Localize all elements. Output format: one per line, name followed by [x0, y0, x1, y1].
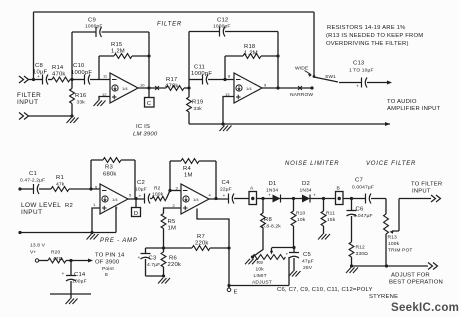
- node D1/D2 junction: [292, 197, 295, 200]
- svg-text:D2: D2: [302, 181, 310, 187]
- svg-text:C11: C11: [194, 65, 205, 71]
- svg-text:220k: 220k: [168, 262, 182, 268]
- svg-text:47k: 47k: [56, 182, 65, 188]
- wire adjust line: [352, 265, 429, 267]
- svg-text:IC IS: IC IS: [136, 124, 150, 130]
- svg-text:PRE - AMP: PRE - AMP: [100, 238, 138, 244]
- svg-text:V+: V+: [30, 250, 36, 256]
- op-amp U2a 1/4 LM3900: [234, 73, 262, 103]
- svg-text:R19: R19: [192, 100, 203, 106]
- svg-text:OF 3900: OF 3900: [95, 260, 120, 266]
- svg-text:1/4: 1/4: [112, 197, 118, 202]
- op-amp U1a 1/4 LM3900: [110, 73, 138, 103]
- svg-text:22µF: 22µF: [220, 187, 232, 193]
- wire return line to audio amp: [189, 123, 390, 125]
- wire R1 to U3 minus: [69, 188, 100, 190]
- svg-text:+: +: [139, 195, 142, 200]
- svg-text:680k: 680k: [103, 172, 117, 178]
- node output junction: [276, 86, 279, 89]
- node R15/C9 junction: [147, 54, 150, 57]
- node R11 tap junction: [322, 197, 325, 200]
- svg-text:LOW LEVEL: LOW LEVEL: [21, 202, 61, 209]
- svg-text:5: 5: [129, 193, 132, 198]
- svg-text:D1: D1: [269, 181, 277, 187]
- wire U2a plus input to return line: [223, 97, 234, 125]
- filter input terminal arrows: [19, 76, 29, 83]
- svg-text:1000pF: 1000pF: [213, 24, 231, 30]
- svg-text:1M: 1M: [168, 226, 177, 232]
- ground: [158, 278, 170, 284]
- node R12/R13 bottom junction: [350, 264, 353, 267]
- svg-text:C1: C1: [29, 171, 37, 177]
- wiper R9: [271, 248, 273, 251]
- svg-text:+: +: [286, 253, 289, 258]
- node B box: [336, 192, 344, 205]
- svg-text:RESISTORS 14-19 ARE 1%: RESISTORS 14-19 ARE 1%: [327, 25, 406, 31]
- svg-text:4: 4: [209, 193, 212, 198]
- svg-text:(R13 IS NEEDED TO KEEP FROM: (R13 IS NEEDED TO KEEP FROM: [326, 33, 423, 39]
- svg-text:SeekIC.com: SeekIC.com: [391, 302, 459, 314]
- svg-text:R3: R3: [105, 165, 113, 171]
- svg-text:1/4: 1/4: [246, 86, 252, 91]
- svg-text:R14: R14: [52, 65, 64, 71]
- svg-text:R20: R20: [51, 250, 61, 256]
- svg-text:C6: C6: [356, 207, 364, 213]
- ground: [245, 259, 257, 265]
- node E rail junction: [227, 284, 230, 287]
- svg-text:C5: C5: [303, 252, 311, 258]
- svg-text:INPUT: INPUT: [412, 189, 431, 195]
- second input terminal arrows: [19, 113, 29, 120]
- node C3/R6 bottom junction: [162, 274, 165, 277]
- svg-text:LIMIT: LIMIT: [254, 273, 267, 279]
- node U4 output junction: [214, 197, 217, 200]
- svg-text:+: +: [223, 194, 226, 199]
- wire U4 plus input to R5: [164, 208, 182, 214]
- svg-text:10k: 10k: [297, 217, 306, 223]
- wire SW1 pole to C13: [339, 82, 362, 84]
- svg-text:R11: R11: [326, 211, 335, 217]
- op-amp U3 1/4 LM3900 pre-amp: [100, 184, 128, 214]
- svg-text:1000pF: 1000pF: [85, 24, 103, 30]
- svg-text:1M: 1M: [184, 173, 193, 179]
- node R7 right junction: [227, 246, 230, 249]
- svg-text:NARROW: NARROW: [290, 92, 313, 98]
- svg-text:R15: R15: [111, 42, 123, 48]
- svg-text:C9: C9: [88, 18, 96, 24]
- svg-text:C12: C12: [217, 18, 228, 24]
- node D box label: [135, 199, 137, 208]
- svg-text:1 TO 10µF: 1 TO 10µF: [349, 68, 374, 74]
- svg-text:33k: 33k: [77, 100, 86, 106]
- svg-text:+: +: [313, 194, 316, 199]
- wire slope stub to R7 line: [197, 209, 229, 249]
- wire C13 to audio output arrow: [367, 82, 390, 84]
- node low level input terminal: [18, 187, 21, 190]
- svg-text:C4: C4: [222, 180, 230, 186]
- wire C10 to op-amp U1a minus input: [90, 79, 110, 81]
- node R3 tap junction: [89, 187, 92, 190]
- node C6 tap junction: [350, 197, 353, 200]
- svg-text:0.0047µF: 0.0047µF: [352, 185, 374, 191]
- wire U1a plus input to ground: [99, 97, 110, 101]
- svg-text:OVERDRIVING THE FILTER): OVERDRIVING THE FILTER): [326, 41, 409, 47]
- wire input to C1: [20, 188, 34, 190]
- ground: [289, 271, 301, 277]
- svg-text:100k: 100k: [388, 241, 400, 247]
- svg-text:R16: R16: [75, 93, 87, 99]
- wire R14 to C10: [70, 79, 85, 81]
- wire to U4 minus: [170, 190, 181, 192]
- svg-text:330Ω: 330Ω: [356, 251, 369, 257]
- node U4 minus junction: [168, 189, 171, 192]
- svg-text:R5: R5: [168, 219, 176, 225]
- svg-text:TO FILTER: TO FILTER: [411, 182, 442, 188]
- node A box: [249, 192, 257, 205]
- wire C8 to R14: [48, 79, 52, 81]
- svg-text:E: E: [105, 272, 109, 278]
- svg-text:33k: 33k: [194, 106, 203, 112]
- svg-text:R6: R6: [169, 256, 177, 262]
- svg-text:R9: R9: [257, 260, 264, 266]
- wire lower input to ground node: [29, 115, 73, 117]
- svg-text:+: +: [62, 272, 65, 277]
- svg-text:2: 2: [173, 203, 176, 208]
- svg-text:10: 10: [140, 83, 145, 88]
- wire R9 right end to E rail: [229, 257, 289, 286]
- svg-text:1/4: 1/4: [122, 86, 128, 91]
- ground: [67, 118, 79, 124]
- node B2 junction: [187, 86, 190, 89]
- ground: [94, 101, 106, 107]
- node C14 tap junction: [69, 259, 72, 262]
- svg-text:E: E: [234, 290, 238, 296]
- svg-text:+: +: [138, 256, 141, 261]
- wire U3 output: [128, 198, 145, 200]
- wire point E drop: [228, 248, 230, 288]
- svg-text:+: +: [356, 85, 359, 90]
- svg-text:B: B: [337, 186, 340, 192]
- node wiper/R10/C5 junction: [292, 246, 295, 249]
- svg-text:TRIM POT: TRIM POT: [388, 248, 413, 254]
- wire: filter input to C8: [29, 79, 43, 81]
- svg-text:47µF: 47µF: [302, 259, 314, 265]
- svg-text:25V: 25V: [303, 265, 313, 271]
- svg-text:1000pF: 1000pF: [191, 71, 212, 77]
- svg-text:C6, C7, C9, C10, C11, C12=POLY: C6, C7, C9, C10, C11, C12=POLY: [277, 287, 373, 293]
- svg-text:C7: C7: [355, 178, 363, 184]
- svg-text:WIDE: WIDE: [295, 66, 309, 72]
- svg-text:11: 11: [103, 74, 108, 79]
- svg-text:470k: 470k: [52, 72, 66, 78]
- svg-text:R1: R1: [56, 175, 64, 181]
- ground: [66, 299, 78, 305]
- svg-text:+: +: [37, 75, 40, 80]
- svg-text:1/4: 1/4: [193, 197, 199, 202]
- svg-text:R10: R10: [296, 211, 306, 217]
- node return junction: [221, 122, 224, 125]
- svg-text:STYRENE: STYRENE: [369, 294, 398, 300]
- svg-text:R4: R4: [183, 166, 191, 172]
- svg-text:FILTER: FILTER: [17, 92, 41, 99]
- svg-text:Point: Point: [102, 266, 114, 272]
- svg-text:4.7µF: 4.7µF: [147, 262, 160, 268]
- ground: [346, 268, 358, 274]
- svg-text:C2: C2: [137, 180, 145, 186]
- node R9 left junction: [251, 255, 254, 258]
- wire R20 to pin 14 arrow: [66, 260, 91, 262]
- svg-text:BEST OPERATION: BEST OPERATION: [389, 280, 443, 286]
- ground: [87, 234, 99, 240]
- wire D2 to box B: [310, 198, 336, 200]
- node B1 junction: [70, 78, 73, 81]
- wire bottom rail: [20, 207, 116, 233]
- node R5/R7/C3/R6 junction: [162, 246, 165, 249]
- svg-text:TO AUDIO: TO AUDIO: [387, 99, 417, 105]
- wire U2a output to narrow contact: [262, 87, 312, 89]
- svg-text:15k: 15k: [327, 217, 336, 223]
- svg-text:C: C: [147, 101, 152, 107]
- wire to filter input arrow: [399, 198, 431, 200]
- wire U3 plus input to bottom rail: [92, 208, 100, 233]
- svg-text:9: 9: [264, 83, 267, 88]
- wire U4 output: [209, 198, 229, 200]
- node bottom rail junction: [90, 231, 93, 234]
- svg-text:3: 3: [176, 186, 179, 191]
- node R18/C12 junction: [276, 54, 279, 57]
- svg-text:R12: R12: [356, 245, 366, 251]
- svg-text:R13: R13: [388, 235, 398, 241]
- node x mark: [298, 86, 302, 90]
- svg-text:220k: 220k: [195, 241, 209, 247]
- wire C1 to R1: [39, 188, 51, 190]
- node narrow contact: [310, 86, 313, 89]
- svg-text:TO PIN 14: TO PIN 14: [95, 253, 125, 259]
- node C box label: [148, 88, 150, 98]
- svg-text:10k: 10k: [256, 267, 265, 273]
- svg-text:10µF: 10µF: [33, 70, 48, 76]
- svg-text:ADJUST FOR: ADJUST FOR: [391, 273, 430, 279]
- svg-text:10µF: 10µF: [135, 187, 147, 193]
- wire V+ to R20: [39, 260, 48, 262]
- svg-text:R2: R2: [154, 186, 161, 192]
- wire C4 to box A: [234, 198, 249, 200]
- svg-text:NOISE LIMITER: NOISE LIMITER: [285, 161, 339, 167]
- wire box B to C7: [343, 198, 366, 200]
- node R8 tap junction: [261, 197, 264, 200]
- node ground junction: [70, 114, 73, 117]
- svg-text:8: 8: [228, 74, 231, 79]
- wire D1 to D2: [281, 198, 303, 200]
- wire: top wide-bypass line from input to SW1: [34, 12, 315, 80]
- svg-text:R7: R7: [197, 234, 205, 240]
- svg-text:LM 3900: LM 3900: [133, 132, 158, 138]
- svg-text:1N34: 1N34: [300, 188, 312, 194]
- svg-text:C13: C13: [353, 61, 365, 67]
- svg-text:R18: R18: [244, 44, 256, 50]
- wire box A to D1: [257, 198, 273, 200]
- op-amp U4 1/4 LM3900: [181, 184, 209, 214]
- svg-text:1: 1: [93, 202, 96, 207]
- svg-text:R17: R17: [166, 77, 177, 83]
- node input return terminal: [18, 231, 21, 234]
- node V+ terminal: [35, 259, 38, 262]
- svg-text:D: D: [134, 211, 138, 217]
- svg-text:INPUT: INPUT: [17, 99, 38, 106]
- wiper R13: [392, 199, 399, 232]
- ground: [318, 234, 330, 240]
- svg-text:0.47-2.2µF: 0.47-2.2µF: [20, 178, 45, 184]
- ground: [220, 126, 232, 132]
- wire node B2 vertical: [188, 32, 190, 98]
- node x mark: [155, 86, 159, 90]
- svg-text:ADJUST: ADJUST: [252, 280, 272, 286]
- svg-text:+: +: [268, 194, 271, 199]
- svg-text:C8: C8: [35, 63, 43, 69]
- node: input junction: [32, 78, 35, 81]
- svg-text:INPUT: INPUT: [21, 209, 42, 216]
- svg-text:VOICE FILTER: VOICE FILTER: [366, 161, 416, 167]
- node U2 minus junction: [223, 78, 226, 81]
- wire C7 to R13 top: [371, 199, 386, 215]
- wire R17 to node B2: [184, 87, 189, 89]
- svg-text:13.8 V: 13.8 V: [30, 243, 46, 249]
- wire U1a output: [138, 87, 166, 89]
- node U3 output junction: [134, 197, 137, 200]
- svg-text:C10: C10: [73, 63, 85, 69]
- svg-text:1.2M: 1.2M: [111, 49, 125, 55]
- svg-text:A: A: [250, 186, 254, 192]
- svg-text:AMPLIFIER INPUT: AMPLIFIER INPUT: [387, 106, 441, 112]
- node E terminal: [227, 288, 231, 292]
- svg-text:R2: R2: [65, 203, 73, 209]
- svg-text:FILTER: FILTER: [157, 22, 182, 28]
- node output junction: [147, 86, 150, 89]
